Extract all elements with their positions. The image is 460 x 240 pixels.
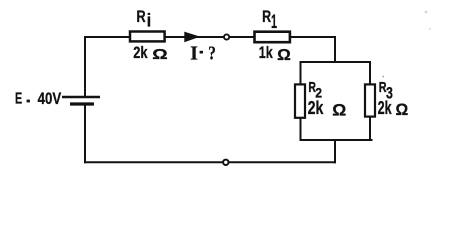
svg-text:i: i (147, 10, 152, 31)
svg-text:Ω: Ω (332, 100, 346, 119)
svg-text:40V: 40V (38, 89, 62, 108)
svg-text:Ω: Ω (277, 47, 291, 64)
svg-text:Ω: Ω (396, 101, 409, 119)
svg-text:1: 1 (271, 12, 277, 33)
svg-text:2k: 2k (133, 43, 148, 62)
svg-text:Ω: Ω (152, 47, 168, 63)
svg-text:R: R (262, 8, 271, 26)
svg-text:?: ? (208, 42, 216, 64)
svg-text:E: E (15, 90, 22, 107)
svg-text:2k: 2k (378, 98, 393, 118)
svg-text:R: R (136, 7, 145, 26)
svg-text:I: I (190, 42, 198, 64)
svg-text:1k: 1k (259, 44, 274, 62)
svg-text:2k: 2k (308, 97, 324, 118)
